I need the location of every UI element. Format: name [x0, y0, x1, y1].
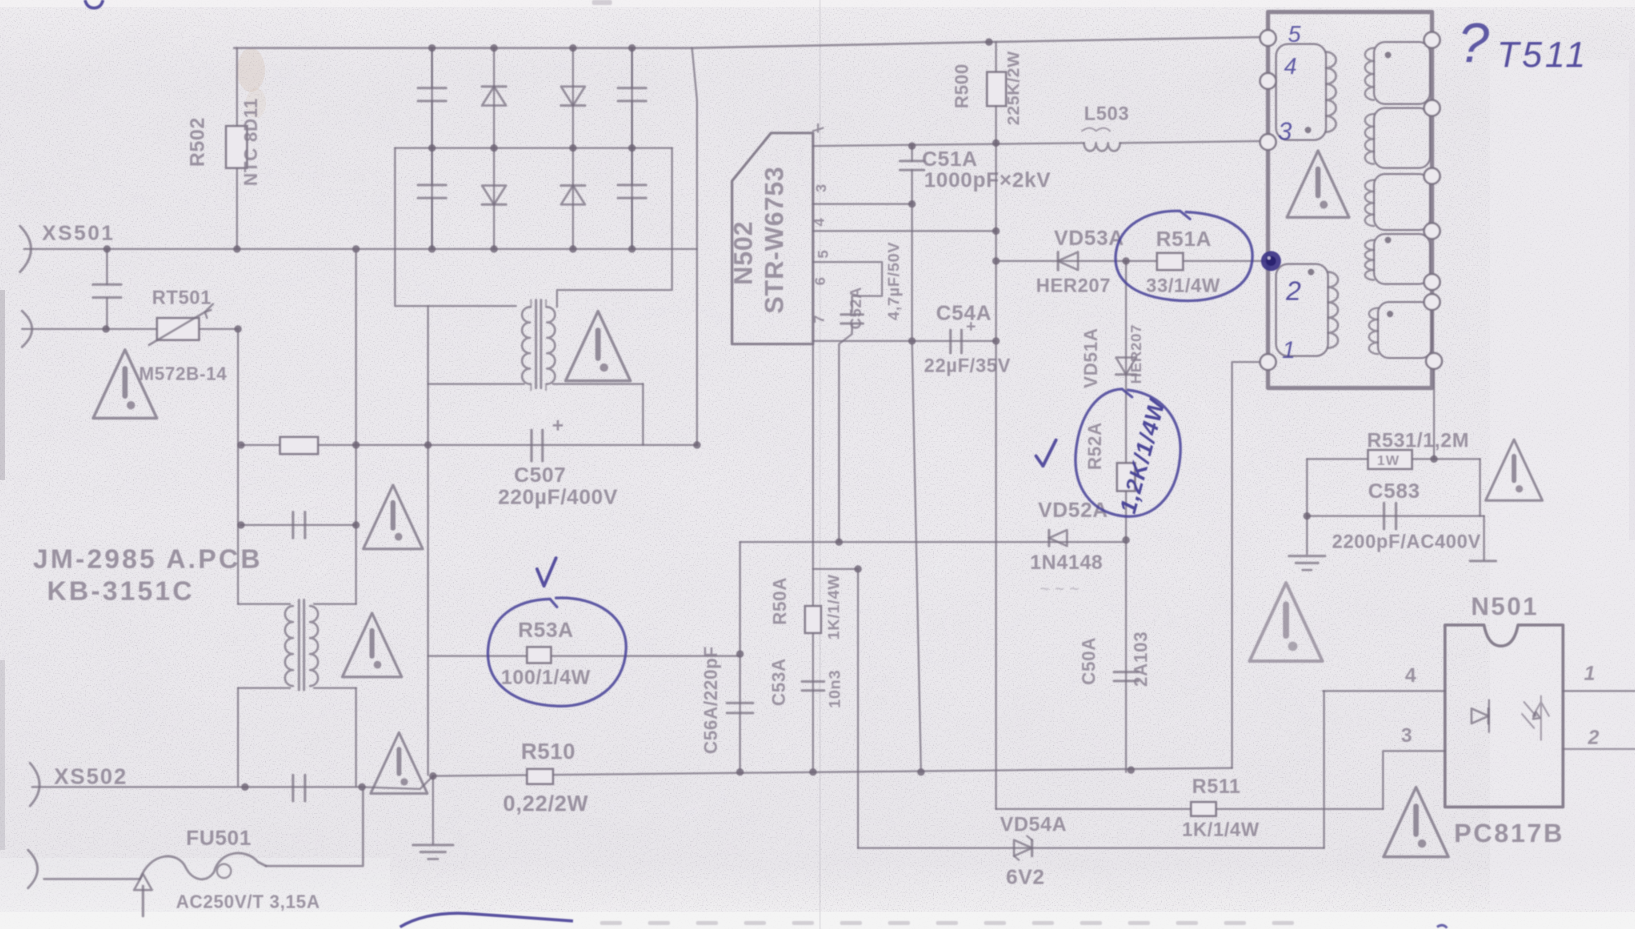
capacitor bridge C2 bottom [631, 148, 633, 249]
svg-text:2: 2 [1587, 727, 1600, 749]
wire fusible row y445 [241, 444, 697, 446]
wire pin7 row (C54A) [813, 340, 996, 342]
warning triangle (near N501) [1384, 787, 1449, 857]
capacitor C53A [802, 680, 824, 683]
capacitor bridge C1 top [431, 48, 433, 148]
wire bridge middle bus [395, 147, 672, 149]
wire x858 vertical [857, 569, 859, 848]
svg-text:1N4148: 1N4148 [1030, 552, 1103, 574]
junction C56A / R53A row [736, 650, 744, 658]
svg-text:7: 7 [811, 315, 828, 324]
diode bridge D2 [482, 186, 506, 205]
wire VD51A branch [1125, 261, 1127, 772]
warning triangle (R531) [1486, 440, 1543, 501]
wire x356 vertical [355, 249, 357, 786]
svg-text:PC817B: PC817B [1454, 818, 1564, 848]
wire XS501 line [24, 248, 697, 250]
capacitor bridge C2 top [631, 48, 633, 148]
ground (C583) [1289, 555, 1325, 558]
transformer choke L1 [536, 300, 541, 388]
bridge column 2 wire [493, 48, 495, 249]
svg-text:2A103: 2A103 [1131, 631, 1151, 687]
diode bridge D3 [561, 87, 585, 106]
svg-text:220µF/400V: 220µF/400V [498, 486, 618, 509]
wire top bus [234, 37, 1266, 48]
wire N501 pin3 [1383, 751, 1445, 809]
wire R511 row [996, 808, 1383, 810]
svg-text:N502: N502 [728, 221, 758, 285]
blue arc top-left [85, 0, 103, 8]
resistor R510 [527, 769, 553, 784]
blue checkmark (R52A) [1036, 440, 1056, 466]
warning triangle (T511) [1287, 151, 1349, 218]
svg-text:3: 3 [1278, 118, 1292, 146]
capacitor C50A [1114, 671, 1138, 674]
ground (R510) [432, 776, 434, 844]
T511 secondary winding 2 [1374, 108, 1430, 168]
svg-text:5: 5 [815, 250, 832, 259]
svg-text:C50A: C50A [1079, 637, 1099, 685]
svg-text:C507: C507 [514, 464, 566, 487]
capacitor C54A [949, 330, 952, 353]
diode VD52A 1N4148 [1049, 530, 1067, 546]
wire N501 pin2 out [1563, 748, 1635, 750]
inductor L503 [1084, 143, 1120, 151]
blue checkmark (R53A) [537, 558, 556, 586]
paper shading patches [0, 912, 1635, 929]
svg-text:1K/1/4W: 1K/1/4W [1182, 820, 1259, 841]
T511 secondary pin circles [1424, 32, 1440, 48]
transformer T511 frame [1268, 12, 1432, 388]
svg-text:100/1/4W: 100/1/4W [501, 667, 591, 689]
warning triangle (XS502) [371, 733, 428, 794]
svg-text:C56A/220pF: C56A/220pF [701, 646, 721, 754]
bridge column 4 wire [631, 48, 633, 249]
svg-text:VD54A: VD54A [1000, 814, 1067, 836]
transformer choke L2 [299, 600, 304, 690]
svg-text:AC250V/T 3,15A: AC250V/T 3,15A [176, 892, 320, 912]
svg-text:?: ? [1458, 11, 1490, 74]
N501 zener element [1533, 696, 1549, 740]
blue arc bottom [400, 913, 573, 927]
svg-text:STR-W6753: STR-W6753 [759, 166, 789, 314]
wire choke L2 leads [238, 604, 356, 688]
wire pin4 row [813, 203, 912, 205]
svg-text:XS502: XS502 [54, 764, 128, 789]
wire filter row y525 [241, 524, 356, 526]
connector XS501 [20, 226, 31, 272]
resistor R52A [1117, 463, 1135, 491]
wire T511 pin1 lead [1232, 362, 1268, 768]
svg-text:C51A: C51A [922, 148, 978, 171]
blue annotation circle R53A [488, 598, 626, 706]
warning triangle (choke L1) [566, 311, 631, 381]
junction dots XS502 [241, 783, 249, 791]
svg-text:HER207: HER207 [1128, 324, 1145, 384]
svg-text:1: 1 [1282, 337, 1296, 364]
svg-text:C52A: C52A [848, 287, 865, 330]
junction dots bridge [428, 44, 436, 52]
resistor jumper (row 445) [280, 437, 318, 454]
wire middle-left drop [395, 148, 516, 306]
fuse arrow mark [142, 886, 145, 916]
resistor R511 [1191, 802, 1216, 816]
resistor R500 [995, 42, 997, 72]
wire C583 row [1307, 515, 1484, 517]
warning triangle (row 445 area) [363, 485, 422, 549]
svg-text:VD52A: VD52A [1038, 499, 1108, 522]
bridge column 1 wire [431, 48, 433, 249]
resistor R502 (NTC) [236, 48, 238, 249]
warning triangle (choke L2) [342, 613, 401, 677]
svg-text:3: 3 [813, 184, 830, 193]
svg-text:6: 6 [812, 277, 829, 286]
bottom edge print remnants [600, 921, 1294, 925]
svg-text:1000pF×2kV: 1000pF×2kV [924, 169, 1051, 192]
T511 primary winding bottom [1276, 264, 1328, 356]
resistor R531 [1368, 450, 1412, 469]
svg-text:C54A: C54A [936, 302, 992, 325]
bridge column 3 wire [572, 48, 574, 249]
wire choke L1 bottom leads [428, 383, 643, 385]
wire VD53A row [996, 260, 1266, 262]
svg-text:1K/1/4W: 1K/1/4W [826, 574, 843, 640]
capacitor XS502 line [292, 775, 295, 801]
wire R500 vertical down [995, 143, 997, 809]
wire x813 vertical (IC bottom to bus) [812, 344, 814, 772]
svg-text:VD53A: VD53A [1054, 227, 1124, 250]
capacitor C507 [527, 444, 529, 446]
diode VD53A HER207 [1058, 252, 1078, 270]
wire left branch vertical x428 [427, 306, 429, 775]
wire VD54A row [858, 847, 1324, 849]
svg-text:R50A: R50A [770, 577, 790, 625]
svg-text:22µF/35V: 22µF/35V [924, 356, 1011, 377]
junction dots C51A/C54A branch [908, 142, 916, 150]
capacitor C56A branch [739, 542, 741, 772]
svg-text:0,22/2W: 0,22/2W [503, 791, 588, 816]
snubber R50A C53A branch [813, 568, 858, 570]
T511 secondary winding 4 [1374, 234, 1430, 284]
svg-text:6V2: 6V2 [1006, 866, 1045, 889]
capacitor C52A [841, 313, 863, 316]
svg-text:225K/2W: 225K/2W [1004, 50, 1023, 125]
wire x912 vertical to bus [911, 204, 913, 341]
N501 phototransistor arrows [1522, 702, 1536, 728]
capacitor bridge C1 bottom [431, 148, 433, 249]
svg-text:VD51A: VD51A [1081, 328, 1101, 389]
capacitor filter (row 525) [292, 512, 295, 538]
svg-text:HER207: HER207 [1036, 276, 1111, 297]
junction dots R500 branch [992, 139, 1000, 147]
capacitor input C (XS501) [106, 249, 108, 329]
svg-text:~ ~ ~: ~ ~ ~ [1040, 581, 1079, 598]
svg-text:KB-3151C: KB-3151C [47, 576, 195, 606]
blue annotation circle R51A [1116, 211, 1253, 301]
wire pin5 row [813, 230, 996, 232]
resistor R53A [527, 647, 551, 663]
zener diode VD54A [1014, 840, 1032, 856]
wire VD52A row [740, 541, 1126, 543]
wire XS502 line [32, 776, 433, 789]
T511 secondary winding 1 [1374, 42, 1430, 104]
blue annotation circle R52A [1075, 389, 1180, 516]
svg-text:10n3: 10n3 [827, 670, 844, 708]
N501 LED [1472, 709, 1489, 724]
wire middle-right drop [557, 148, 672, 307]
wire RT501 line [22, 328, 238, 330]
warning triangle (RT501) [93, 350, 157, 418]
diode bridge D4 [561, 186, 585, 205]
diode bridge D1 [482, 87, 506, 106]
svg-text:FU501: FU501 [186, 827, 252, 850]
svg-text:+: + [552, 415, 564, 437]
diode VD51A [1116, 358, 1136, 375]
svg-text:N501: N501 [1471, 593, 1539, 621]
svg-text:NTC 8D11: NTC 8D11 [241, 98, 261, 186]
svg-text:XS501: XS501 [42, 222, 115, 245]
svg-text:T511: T511 [1497, 34, 1588, 75]
wire N501 pin1 out [1563, 690, 1635, 692]
svg-text:2200pF/AC400V: 2200pF/AC400V [1332, 532, 1481, 553]
svg-text:4,7µF/50V: 4,7µF/50V [886, 242, 903, 321]
wire x238 vertical [237, 329, 239, 786]
svg-text:33/1/4W: 33/1/4W [1146, 276, 1220, 297]
svg-text:R52A: R52A [1085, 422, 1105, 470]
svg-text:4: 4 [1405, 665, 1417, 687]
svg-text:R502: R502 [187, 117, 209, 167]
T511 secondary winding 5 [1378, 302, 1432, 358]
fuse FU501 [44, 878, 140, 880]
T511 primary pin circles [1260, 30, 1276, 46]
T511 secondary winding 3 [1374, 174, 1430, 230]
resistor R51A [1157, 253, 1183, 270]
resistor R50A [805, 606, 821, 633]
svg-text:R53A: R53A [518, 619, 574, 642]
svg-text:R531/1,2M: R531/1,2M [1367, 430, 1469, 452]
warning triangle (near C50A) [1250, 583, 1323, 661]
wire bottom bus R510 row [433, 768, 1232, 776]
wire pin4 drop to VD54A row [1323, 691, 1325, 848]
connector XS502 [30, 763, 40, 806]
wire right column [1480, 459, 1484, 560]
svg-text:1W: 1W [1377, 452, 1400, 468]
wire pin3 row to T511 [813, 143, 1084, 146]
capacitor C583 [1383, 503, 1386, 529]
svg-text:5: 5 [1288, 21, 1301, 47]
svg-text:4: 4 [811, 217, 828, 226]
wire pin6 row + C52A chain [813, 262, 882, 312]
optocoupler N501 PC817B box [1445, 625, 1563, 807]
wire R531 row [1307, 458, 1480, 460]
svg-text:C583: C583 [1368, 480, 1420, 503]
junction dots filter [237, 441, 245, 449]
svg-text:R500: R500 [952, 63, 972, 108]
wire R53A row [428, 655, 740, 657]
svg-text:R511: R511 [1192, 776, 1241, 798]
svg-text:RT501: RT501 [152, 288, 212, 309]
svg-text:C53A: C53A [769, 658, 789, 706]
blue node dot at T511 pin2 [1261, 251, 1281, 271]
wire N501 pin4 [1323, 690, 1445, 692]
varistor RT501 [157, 318, 199, 340]
T511 primary winding top [1276, 44, 1326, 140]
svg-text:JM-2985 A.PCB: JM-2985 A.PCB [33, 544, 263, 574]
svg-text:1: 1 [1584, 663, 1596, 685]
wire R531 left column to ground [1306, 459, 1308, 554]
svg-text:3: 3 [1401, 725, 1413, 747]
op-amp/IC N502 STR-W6753 [732, 133, 813, 344]
wire right stub x643 [642, 384, 644, 445]
svg-text:2: 2 [1285, 276, 1302, 306]
wire T511 to R531 [1433, 369, 1435, 459]
svg-text:4: 4 [1284, 53, 1297, 79]
svg-text:L503: L503 [1084, 104, 1129, 125]
junction dots bottom bus [429, 772, 437, 780]
capacitor C51A [911, 146, 913, 204]
svg-text:R510: R510 [521, 739, 576, 764]
svg-text:R51A: R51A [1156, 228, 1212, 251]
wire x697 vertical (top bus to C507) [692, 48, 697, 445]
svg-text:M572B-14: M572B-14 [139, 364, 227, 384]
